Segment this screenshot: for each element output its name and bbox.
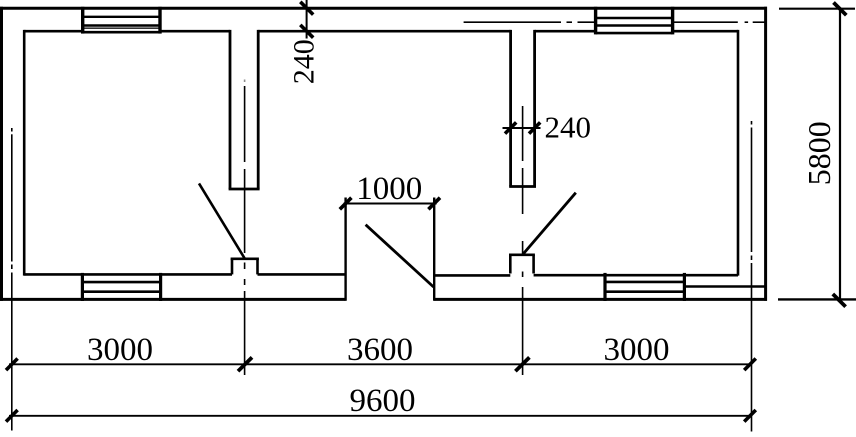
dimension 5800 tick top — [834, 3, 847, 16]
partition wall 1 — [229, 30, 260, 189]
door D3 swing — [523, 193, 576, 255]
dimension 240 right line — [503, 127, 541, 129]
wire inner wall left — [23, 30, 26, 276]
wire door jamb left of opening — [344, 198, 346, 301]
dimension 5800 extension bottom — [778, 298, 856, 300]
dimension row1 tick 3 — [515, 357, 529, 371]
window W1 top-left — [83, 7, 160, 34]
dimension row1 tick 1 — [6, 359, 18, 371]
node axis partition 1 — [244, 80, 246, 376]
wire inner wall right — [737, 30, 740, 276]
dimension 240 top line — [306, 0, 308, 39]
svg-text:5800: 5800 — [801, 121, 837, 185]
node axis partition 2 — [522, 106, 524, 375]
window W3 bottom-left — [82, 273, 160, 301]
dimension row2 line 9600 — [9, 415, 752, 417]
wire outer wall left — [0, 7, 3, 301]
wire inner wall bottom segments — [24, 273, 82, 276]
dimension row2 tick left — [6, 410, 18, 422]
dimension 1000 tick left — [340, 198, 352, 210]
node axis right wall — [751, 121, 753, 432]
dimension row1 tick 2 — [238, 357, 252, 371]
dimension 240 right tick right — [529, 122, 540, 133]
wire door jamb right of opening — [433, 198, 435, 301]
partition wall 1 stub — [231, 259, 259, 275]
dimension 5800 tick bottom — [833, 294, 846, 307]
svg-text:9600: 9600 — [350, 383, 416, 419]
dimension 240 right tick left — [505, 122, 516, 133]
svg-text:240: 240 — [545, 109, 592, 144]
node axis top wall — [464, 21, 766, 23]
dimension 5800 line — [839, 9, 841, 300]
svg-text:3000: 3000 — [604, 332, 670, 368]
wire outer wall bottom left part — [0, 298, 346, 301]
svg-text:3600: 3600 — [347, 332, 413, 368]
partition wall 2 stub — [509, 255, 535, 274]
dimension 5800 extension top — [779, 8, 855, 10]
wire outer wall top — [0, 7, 767, 10]
wire outer wall bottom right part — [434, 298, 767, 301]
dimension row1 line — [9, 363, 752, 365]
wire sill line right of window W4 — [684, 285, 765, 287]
window W4 bottom-right — [605, 273, 684, 301]
svg-text:3000: 3000 — [87, 332, 153, 368]
dimension row1 tick 4 — [744, 359, 756, 371]
svg-text:240: 240 — [288, 39, 321, 84]
dimension 1000 tick right — [428, 198, 440, 210]
svg-text:1000: 1000 — [356, 171, 422, 207]
dimension row2 tick right — [744, 410, 756, 422]
node axis left wall — [11, 128, 13, 431]
dimension 240 top tick at inner — [300, 25, 313, 38]
wire inner wall top segments — [24, 30, 82, 33]
dimension 240 top tick at outer — [300, 2, 313, 15]
partition wall 2 — [509, 30, 536, 187]
door D1 swing — [199, 183, 245, 258]
window W2 top-right — [596, 7, 673, 35]
dimension 1000 line — [344, 203, 437, 205]
wire outer wall right — [764, 7, 767, 301]
door D2 swing — [366, 225, 434, 287]
